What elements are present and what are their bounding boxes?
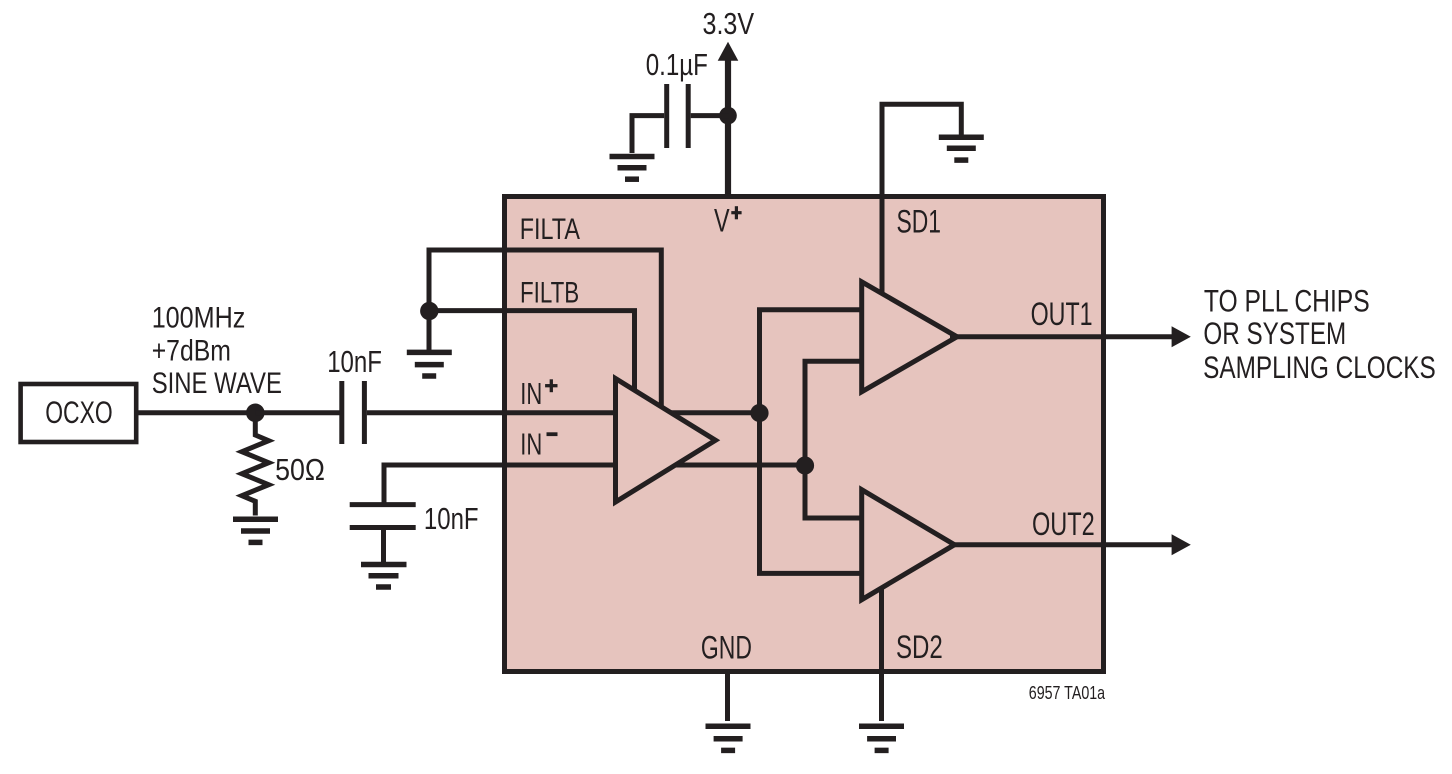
svg-text:+7dBm: +7dBm (152, 334, 231, 367)
wire IN+ net (cap C1 to node B through buffer) (367, 410, 760, 415)
svg-text:FILTA: FILTA (520, 213, 580, 246)
svg-text:TO PLL CHIPS: TO PLL CHIPS (1204, 283, 1370, 319)
svg-text:GND: GND (701, 629, 752, 665)
svg-text:6957 TA01a: 6957 TA01a (1029, 683, 1106, 703)
wire C3 left plate to ground (632, 116, 664, 153)
svg-text:OR SYSTEM: OR SYSTEM (1203, 315, 1346, 351)
svg-text:10nF: 10nF (424, 501, 479, 536)
ground G1 under R1 (233, 519, 278, 542)
wire GND pin (725, 671, 730, 721)
wire IN- net (cap C2 corner to node C through buffer) (384, 465, 805, 506)
ground G4 under C3 (610, 157, 655, 180)
power arrow 3.3V (718, 42, 739, 61)
wire SD1 net (882, 104, 961, 298)
svg-text:0.1µF: 0.1µF (646, 47, 708, 82)
svg-text:3.3V: 3.3V (703, 6, 755, 41)
buffer U2 output driver OUT1 (862, 282, 957, 392)
svg-text:SD1: SD1 (897, 204, 942, 240)
wire C3 right plate to V+ (691, 113, 729, 118)
svg-text:IN: IN (520, 377, 542, 411)
wire node B up to buffer U2 input (760, 310, 865, 413)
node D junction dot (FILTA/FILTB) (420, 302, 438, 320)
node C junction dot (796, 456, 814, 474)
wire node B down to buffer U3 input (760, 413, 865, 573)
wire V+ pin stem (725, 58, 731, 197)
wire FILTB net (429, 311, 635, 391)
wire node C down to buffer U3 input (805, 466, 864, 519)
node E junction dot on V+ (719, 107, 737, 125)
ground G3 under FILT node D (407, 352, 452, 376)
OCXO source box (21, 384, 137, 442)
buffer U1a input limiting amplifier (616, 379, 716, 503)
resistor R1 50ohm (242, 421, 269, 516)
capacitor C2 10nF shunt (350, 505, 416, 528)
svg-text:10nF: 10nF (327, 344, 382, 379)
wire OUT2 (950, 542, 1176, 547)
wire OCXO output to node A (138, 410, 256, 415)
svg-text:SAMPLING CLOCKS: SAMPLING CLOCKS (1203, 349, 1436, 385)
wire node C up to buffer U2 input (805, 361, 864, 465)
ground G5 on SD1 (939, 137, 984, 160)
svg-text:SINE WAVE: SINE WAVE (152, 367, 282, 400)
buffer U3 output driver OUT2 (862, 490, 955, 600)
svg-text:FILTB: FILTB (520, 277, 579, 310)
svg-text:OCXO: OCXO (45, 394, 113, 430)
wire C2 bottom to ground (381, 529, 386, 563)
capacitor C3 0.1uF (667, 84, 689, 148)
IC U1 LTC6957 body (505, 197, 1104, 672)
capacitor C1 10nF series (342, 381, 365, 444)
arrowhead OUT1 (1172, 326, 1191, 347)
wire SD2 net (879, 585, 884, 721)
ground G2 under C2 (361, 565, 407, 588)
arrowhead OUT2 (1172, 534, 1191, 555)
node B junction dot (750, 404, 768, 422)
ground G7 under GND pin (706, 726, 751, 750)
wire node A to capacitor C1 (255, 410, 340, 415)
wire OUT1 (950, 334, 1176, 339)
svg-text:V: V (714, 203, 730, 239)
svg-text:IN: IN (520, 428, 542, 462)
node A junction dot (246, 404, 265, 423)
svg-text:100MHz: 100MHz (152, 301, 246, 334)
svg-text:OUT1: OUT1 (1031, 296, 1093, 332)
wire FILTA net (429, 250, 661, 409)
ground G6 under SD2 (859, 726, 904, 750)
svg-text:OUT2: OUT2 (1032, 506, 1095, 542)
svg-text:50Ω: 50Ω (275, 452, 325, 487)
svg-text:SD2: SD2 (896, 629, 943, 665)
